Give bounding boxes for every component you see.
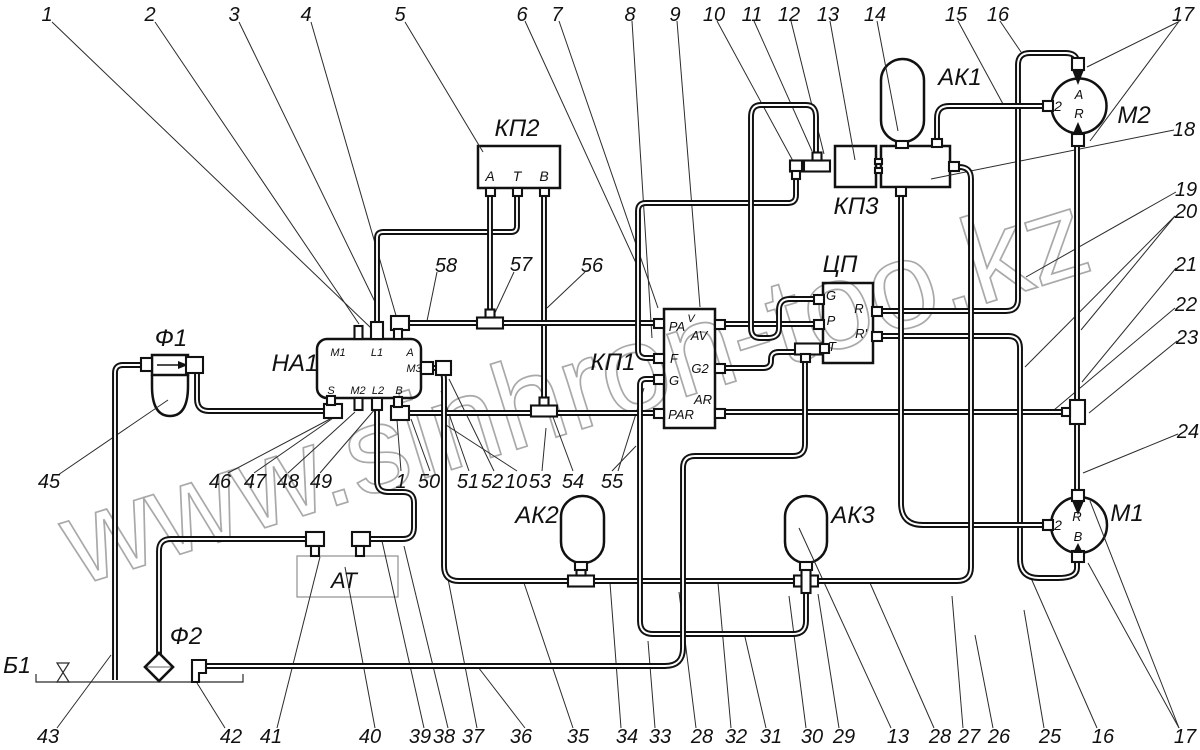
M1 top arrow xyxy=(1073,502,1084,515)
KP1 PAR stub xyxy=(654,409,664,418)
leader 54 to tee 54 xyxy=(553,417,573,471)
svg-text:38: 38 xyxy=(433,726,455,748)
svg-text:B: B xyxy=(395,385,402,397)
M1 bottom arrow xyxy=(1073,543,1083,553)
CP R1 stub xyxy=(872,332,882,341)
svg-text:АК2: АК2 xyxy=(513,502,559,529)
svg-text:1: 1 xyxy=(395,471,406,493)
svg-text:17: 17 xyxy=(1174,726,1197,748)
leader 2 to NA1 M1 stub xyxy=(155,22,359,324)
svg-text:5: 5 xyxy=(394,4,406,26)
CP R stub xyxy=(872,307,882,316)
wire M2 port2 to KP3 top xyxy=(937,106,1046,142)
NA1 M3 elbow xyxy=(436,361,451,375)
svg-text:АК3: АК3 xyxy=(829,502,875,529)
svg-text:55: 55 xyxy=(601,471,624,493)
svg-text:53: 53 xyxy=(529,471,551,493)
svg-text:3: 3 xyxy=(228,4,239,26)
leader 28a to tank riser xyxy=(679,592,696,728)
svg-text:18: 18 xyxy=(1173,119,1195,141)
svg-text:42: 42 xyxy=(220,726,242,748)
wire KP1 G2 to CP T tee xyxy=(721,352,800,368)
svg-text:14: 14 xyxy=(864,4,886,26)
svg-text:R: R xyxy=(1074,106,1083,121)
tee 11 at KP3 inlet xyxy=(804,153,830,172)
leader 29 to AK3 cross leg xyxy=(818,594,839,728)
svg-text:ЦП: ЦП xyxy=(823,251,858,278)
leader 57 to tee 57 xyxy=(493,272,514,317)
M1 left port xyxy=(1043,520,1053,530)
valve block KP2 xyxy=(478,146,560,188)
leader 9 to KP1 top xyxy=(677,21,700,307)
svg-text:АТ: АТ xyxy=(329,568,358,593)
leader 33 to G drain xyxy=(648,641,655,728)
svg-text:57: 57 xyxy=(510,254,533,276)
tee under AK2 xyxy=(568,568,594,587)
svg-text:21: 21 xyxy=(1174,254,1197,276)
tank return elbow xyxy=(192,660,206,682)
svg-text:10: 10 xyxy=(505,471,527,493)
leader 50 to B line xyxy=(411,419,430,471)
M2 bottom arrow xyxy=(1073,122,1083,134)
svg-text:15: 15 xyxy=(945,4,968,26)
F1 inlet stub xyxy=(141,358,152,371)
accumulator AK2 xyxy=(561,496,604,563)
tee 54 on PAR line xyxy=(531,398,557,417)
AT left port elbow xyxy=(306,532,324,556)
wire KP1 AV to CP P xyxy=(721,321,818,327)
svg-text:56: 56 xyxy=(581,255,604,277)
leader 5 to KP2 xyxy=(405,22,483,152)
svg-text:47: 47 xyxy=(244,471,267,493)
svg-text:КП1: КП1 xyxy=(591,349,636,376)
leader 28b to AK line xyxy=(870,583,934,728)
accumulator AK1 xyxy=(881,59,924,142)
svg-text:1: 1 xyxy=(41,4,52,26)
M1 top port xyxy=(1072,490,1084,501)
svg-text:T: T xyxy=(828,339,837,354)
leader 26 to KP3 riser xyxy=(975,635,993,728)
svg-text:46: 46 xyxy=(209,471,232,493)
leader 16 to M2 top loop xyxy=(1000,21,1021,52)
wire KP3 tee loop to CP G xyxy=(751,105,818,338)
wire AK1 neck xyxy=(899,140,905,148)
wire AT to F2 xyxy=(159,539,310,654)
svg-text:A: A xyxy=(405,347,413,359)
valve block KP3 left section xyxy=(835,146,876,187)
wire M2 R riser to M1 top xyxy=(1074,144,1080,490)
KP2 port T stub xyxy=(513,188,522,196)
KP1 PA stub xyxy=(654,319,664,328)
svg-text:R': R' xyxy=(855,326,867,341)
leader 27 to KP3 riser curve xyxy=(952,596,963,728)
svg-text:12: 12 xyxy=(778,4,800,26)
svg-text:PAR: PAR xyxy=(668,407,694,422)
motor M1 xyxy=(1051,497,1107,553)
svg-text:A: A xyxy=(484,168,494,184)
svg-text:43: 43 xyxy=(37,726,59,748)
wire KP3 right to AK manifold to NA1 M3 xyxy=(430,167,971,581)
svg-text:Ф2: Ф2 xyxy=(170,623,202,650)
leader 55 to G pipe xyxy=(612,446,636,471)
leader 21 to M2R riser low xyxy=(1082,268,1176,382)
leader 40 to AT xyxy=(345,567,375,728)
cooler AT box xyxy=(297,556,398,597)
wire KP1 PAR to tee 23 xyxy=(721,409,1072,415)
leader 35 to AK line xyxy=(524,583,573,728)
accumulator AK3 xyxy=(785,496,827,563)
leader 31 to G drain pipe xyxy=(745,637,766,728)
NA1 A port elbow xyxy=(391,316,409,339)
leader 17d to M1 bottom port xyxy=(1088,563,1179,728)
KP3 right stub xyxy=(949,162,959,171)
svg-text:2: 2 xyxy=(143,4,155,26)
leader 4 to NA1 A elbow xyxy=(311,22,397,319)
svg-text:9: 9 xyxy=(669,4,680,26)
svg-text:13: 13 xyxy=(887,726,909,748)
leader 10 to drain elbow xyxy=(717,21,793,161)
svg-text:16: 16 xyxy=(1092,726,1115,748)
leader 12 to KP3 nipple xyxy=(791,21,824,154)
svg-text:G2: G2 xyxy=(691,361,709,376)
wire F1 outlet to NA1 S xyxy=(192,365,328,411)
leader 11 to KP3 tee xyxy=(754,21,812,151)
KP3 bottom stub xyxy=(896,187,906,196)
leader 41 to AT left elbow xyxy=(277,557,320,728)
tank breather xyxy=(57,663,69,682)
NA1 M1 blind stub xyxy=(355,326,363,339)
svg-text:30: 30 xyxy=(801,726,823,748)
cross under AK3 xyxy=(794,568,818,593)
leader 7 to KP1 PA xyxy=(559,21,658,308)
wire AK2 neck xyxy=(578,561,584,574)
svg-text:M3: M3 xyxy=(406,363,422,375)
svg-text:41: 41 xyxy=(260,726,282,748)
leader 38 to S-bend right xyxy=(404,546,448,728)
svg-text:19: 19 xyxy=(1175,179,1197,201)
NA1 L1 port stub xyxy=(371,322,383,339)
leader 53 to B riser xyxy=(542,428,546,471)
svg-text:25: 25 xyxy=(1038,726,1062,748)
svg-text:54: 54 xyxy=(562,471,584,493)
svg-text:11: 11 xyxy=(742,4,763,26)
leader 36 to drain line xyxy=(478,667,525,728)
leader 22 to PAR line xyxy=(1054,308,1175,410)
M1 bottom port xyxy=(1072,551,1084,562)
svg-text:40: 40 xyxy=(359,726,381,748)
svg-text:52: 52 xyxy=(481,471,503,493)
wire KP2 A riser xyxy=(487,194,493,318)
wire NA1 A to KP1 PA xyxy=(405,320,658,326)
svg-text:28: 28 xyxy=(928,726,951,748)
svg-text:23: 23 xyxy=(1175,327,1198,349)
wire NA1 B to KP1 PAR xyxy=(405,410,658,416)
svg-text:КП2: КП2 xyxy=(495,115,540,142)
leader 3 to L1 riser xyxy=(239,22,377,306)
leader 17 to M2 top port xyxy=(1087,22,1178,67)
svg-text:AR: AR xyxy=(693,392,712,407)
leader 19 to R riser xyxy=(1026,192,1176,277)
leader 24 to M1 riser xyxy=(1083,434,1178,473)
svg-text:58: 58 xyxy=(435,255,457,277)
svg-text:М2: М2 xyxy=(1117,102,1150,129)
leader 56 to B riser xyxy=(547,272,585,308)
AK3 neck stub xyxy=(800,562,812,570)
leader 17c to M1 top port xyxy=(1090,501,1179,728)
leader 45 to F1 xyxy=(58,400,168,475)
M2 bottom port xyxy=(1072,134,1084,146)
tee 57 on PA line xyxy=(477,310,503,329)
NA1 M2 blind stub xyxy=(355,398,363,410)
leader 6 to pipe 6 xyxy=(525,21,636,263)
svg-text:AV: AV xyxy=(690,328,709,343)
svg-text:24: 24 xyxy=(1176,421,1199,443)
M2 top port xyxy=(1072,58,1084,70)
tank B1 xyxy=(36,674,243,682)
svg-text:PA: PA xyxy=(669,319,685,334)
tee 23 on M2R riser xyxy=(1062,400,1085,424)
svg-text:13: 13 xyxy=(817,4,839,26)
leader 15 to M2 line xyxy=(958,21,1003,104)
leader 23 to tee 23 xyxy=(1089,341,1177,413)
leader 47 to S fitting xyxy=(254,416,336,473)
CP P stub xyxy=(814,320,824,329)
leader 10b to M3 pipe xyxy=(446,425,517,471)
svg-text:Б1: Б1 xyxy=(3,652,31,678)
KP2 port B stub xyxy=(540,188,549,196)
valve block CP xyxy=(823,283,873,363)
KP1 G2 stub xyxy=(715,364,725,373)
leader 18 to KP3 right box xyxy=(931,130,1174,179)
filter F2 xyxy=(145,653,173,681)
svg-text:22: 22 xyxy=(1174,294,1197,316)
svg-text:КП3: КП3 xyxy=(834,193,880,220)
leader 37 to M3 drop xyxy=(443,553,477,728)
svg-text:10: 10 xyxy=(703,4,725,26)
svg-text:20: 20 xyxy=(1174,201,1197,223)
leader 25 to R1 riser low xyxy=(1024,610,1044,728)
svg-text:29: 29 xyxy=(832,726,855,748)
svg-text:АК1: АК1 xyxy=(936,64,982,91)
svg-text:39: 39 xyxy=(409,726,431,748)
leader 34 to AK2 tee xyxy=(610,583,621,728)
svg-text:31: 31 xyxy=(760,726,782,748)
svg-text:6: 6 xyxy=(516,4,528,26)
svg-text:B: B xyxy=(1074,529,1083,544)
leader 20 to M2R riser xyxy=(1081,216,1175,330)
wire AK3 neck xyxy=(803,561,809,572)
svg-text:R: R xyxy=(1072,509,1081,524)
leader 1 to NA1 L1 port xyxy=(52,22,371,328)
wire CP T drain to tank xyxy=(202,360,805,666)
KP3 top stub xyxy=(932,139,942,147)
svg-text:51: 51 xyxy=(457,471,479,493)
KP1 AV stub xyxy=(715,320,725,329)
svg-text:L2: L2 xyxy=(372,385,384,397)
wire KP2 T to NA1 L1 xyxy=(377,194,517,340)
leader 39 to L2 S-bend xyxy=(382,541,424,728)
elbow 10 at KP3 inlet xyxy=(790,161,802,180)
svg-text:16: 16 xyxy=(987,4,1010,26)
svg-text:28: 28 xyxy=(690,726,713,748)
leader 13 to KP3 left box xyxy=(830,21,855,160)
AK2 neck stub xyxy=(575,562,587,570)
AK1 neck stub xyxy=(896,141,908,148)
svg-text:M2: M2 xyxy=(350,385,365,397)
svg-text:S: S xyxy=(327,385,335,397)
svg-text:34: 34 xyxy=(616,726,638,748)
NA1 L2 port stub xyxy=(372,398,382,410)
tee under CP T xyxy=(795,344,821,363)
leader 1b to B elbow xyxy=(397,420,401,471)
watermark www.sinhron-too.kz xyxy=(44,164,1104,612)
svg-text:32: 32 xyxy=(725,726,747,748)
svg-text:45: 45 xyxy=(38,471,61,493)
wire tank to F1 inlet xyxy=(115,365,145,680)
CP T stub xyxy=(820,344,829,353)
svg-text:8: 8 xyxy=(624,4,635,26)
svg-text:7: 7 xyxy=(551,4,563,26)
svg-text:48: 48 xyxy=(277,471,299,493)
svg-text:2: 2 xyxy=(1053,517,1062,533)
wire AK3 cross to KP1 G xyxy=(640,379,806,634)
svg-text:37: 37 xyxy=(462,726,485,748)
svg-text:P: P xyxy=(827,313,836,328)
leader 20 to R1 riser xyxy=(1025,216,1175,367)
NA1 S port elbow xyxy=(324,396,342,418)
wire CP R to M2 top xyxy=(878,53,1077,311)
leader 13b to AK3 xyxy=(799,528,891,728)
KP1 G stub xyxy=(654,375,664,384)
leader 58 to PA pipe xyxy=(427,272,437,321)
filter F1 body xyxy=(152,355,188,416)
M2 left port xyxy=(1043,101,1053,111)
KP2 port A stub xyxy=(486,188,495,196)
KP1 F stub xyxy=(654,354,664,363)
svg-text:33: 33 xyxy=(649,726,671,748)
KP1 PAR right stub xyxy=(715,409,725,418)
valve block KP3 right section xyxy=(881,146,950,187)
svg-text:36: 36 xyxy=(510,726,533,748)
svg-text:R: R xyxy=(854,301,863,316)
svg-text:Ф1: Ф1 xyxy=(155,325,187,352)
svg-text:A: A xyxy=(1074,87,1084,102)
leader 43 to suction pipe xyxy=(57,655,111,728)
wire KP1 F to KP3 inlet elbow xyxy=(638,176,796,358)
leader 30 to AK3 cross xyxy=(789,596,806,728)
svg-text:G: G xyxy=(669,373,679,388)
svg-text:17: 17 xyxy=(1172,4,1195,26)
CP G stub xyxy=(814,295,824,304)
svg-text:35: 35 xyxy=(567,726,590,748)
svg-text:М1: М1 xyxy=(1110,500,1143,527)
leader 32 to AK line mid xyxy=(718,583,731,728)
pump unit NA1 xyxy=(317,339,421,398)
svg-text:50: 50 xyxy=(418,471,440,493)
valve KP1 xyxy=(664,309,715,428)
leader 8 to F pipe xyxy=(632,21,652,338)
leader 17 to M2 bottom port xyxy=(1090,20,1180,141)
wire NA1 L2 to AT S-bend xyxy=(366,408,414,539)
svg-text:L1: L1 xyxy=(371,347,383,359)
leader 46 to S elbow xyxy=(228,419,330,473)
leader 52 to M3 elbow xyxy=(449,379,494,471)
NA1 B port elbow xyxy=(391,397,409,420)
M2 top arrow xyxy=(1073,71,1084,85)
svg-text:G: G xyxy=(826,288,836,303)
svg-text:B: B xyxy=(539,168,548,184)
motor M2 xyxy=(1052,79,1107,134)
leader 55 to F pipe xyxy=(618,388,644,471)
leader 16b to M1 loop xyxy=(1031,578,1097,728)
svg-text:F: F xyxy=(670,351,679,366)
leader 42 to tank elbow xyxy=(197,683,225,728)
KP3 section nipples xyxy=(875,159,882,173)
leader 49 to L2 port xyxy=(320,408,376,473)
AT right port elbow xyxy=(352,532,370,556)
svg-text:26: 26 xyxy=(987,726,1011,748)
leader 48 to M2 stub xyxy=(288,412,355,473)
NA1 M3 port stub xyxy=(421,362,433,374)
wire KP2 B riser xyxy=(541,194,547,402)
wire KP3 bottom to M1 port2 xyxy=(901,192,1046,525)
svg-text:4: 4 xyxy=(300,4,311,26)
svg-text:M1: M1 xyxy=(330,347,345,359)
F1 outlet elbow xyxy=(186,357,203,373)
svg-text:49: 49 xyxy=(310,471,332,493)
svg-text:T: T xyxy=(513,168,523,184)
svg-text:2: 2 xyxy=(1053,98,1062,114)
leader 51 to M3 stub xyxy=(441,391,469,471)
leader 14 to AK1 xyxy=(877,21,898,131)
svg-text:27: 27 xyxy=(957,726,981,748)
svg-text:НА1: НА1 xyxy=(272,350,319,377)
wire CP R1 to M1 B xyxy=(878,336,1077,578)
